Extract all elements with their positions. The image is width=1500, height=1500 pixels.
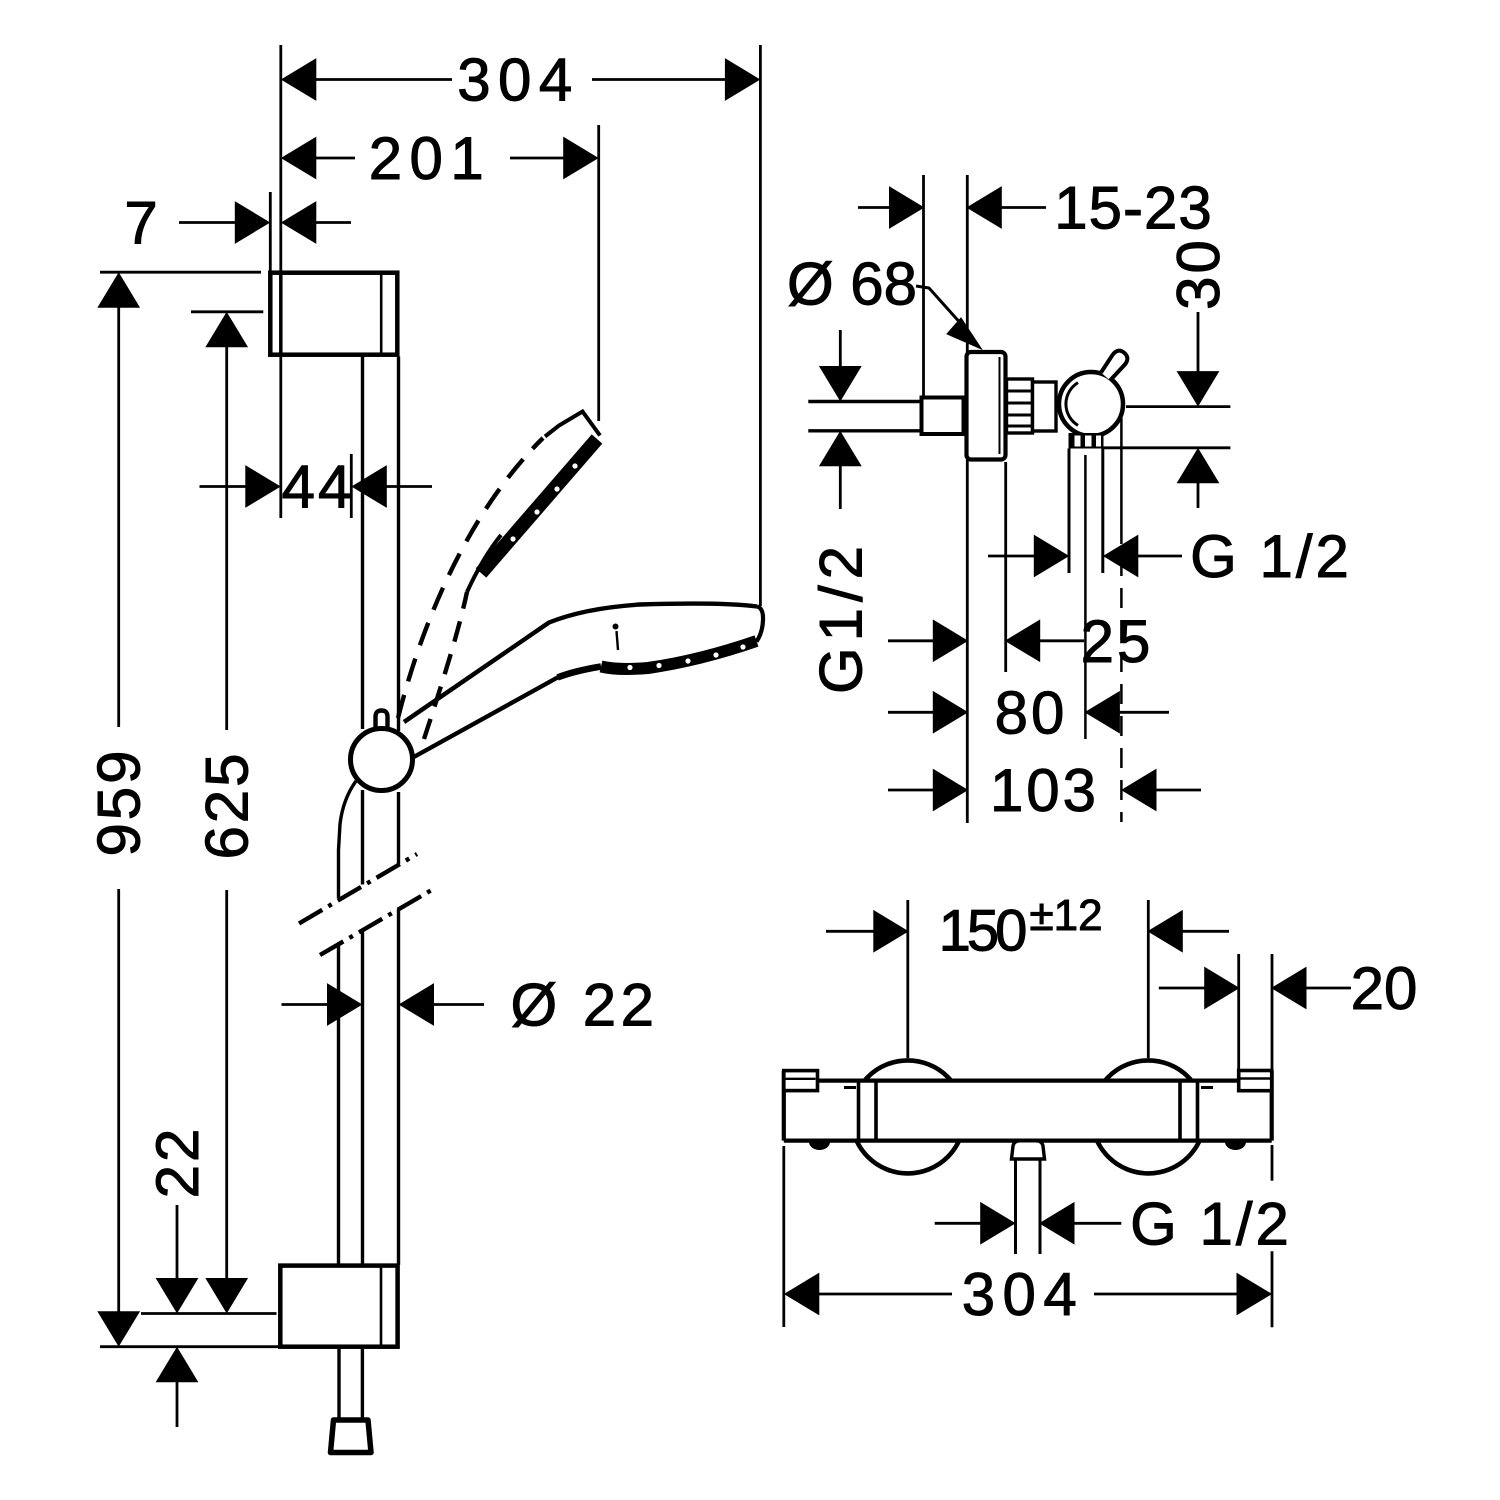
left valve joint lines [857, 1081, 861, 1141]
svg-text:G 1/2: G 1/2 [1130, 1190, 1292, 1257]
svg-text:150: 150 [939, 899, 1026, 964]
hose end cone (conical nut) [331, 1420, 372, 1453]
dimension G1/2 (front view outlet) [935, 1222, 982, 1225]
svg-text:625: 625 [194, 750, 261, 859]
dimension 304 (top) [282, 59, 316, 100]
wire: outlet axis center line (x=1085.4) [1084, 455, 1087, 739]
dimension 625 (vertical) [191, 310, 263, 313]
wire: bracket front face extension line (x=270.3) [269, 192, 272, 271]
thermostat body bar [784, 1081, 1272, 1141]
wire: 20-dim extension lines [1237, 954, 1240, 1069]
wire: wall plane extension line below bracket (x=280.8) [279, 357, 282, 519]
wire: 304-dim extension lines (front view) [782, 1146, 785, 1327]
union nut [922, 398, 964, 435]
dimension G1/2 supply pipe (vertical arrows at x=840.3) [839, 330, 842, 367]
slider holder (circle) [351, 729, 413, 791]
dimension 150 +-12 [826, 930, 875, 933]
hand shower spray face (horizontal, black band with nozzles) [601, 641, 757, 669]
dashed hand shower handle outline (raised position, right curve) [424, 592, 467, 739]
shower outlet below valve (ribbed G1/2) [1069, 433, 1104, 449]
dimension 80 [888, 711, 934, 714]
threaded connector (ribbed) [1007, 379, 1033, 433]
valve lever (small handle at top right) [1101, 351, 1127, 381]
svg-text:103: 103 [990, 757, 1099, 824]
dimension 25 [888, 639, 934, 642]
wire: extension line 15-23 left (x=923.5) [922, 175, 925, 396]
hand shower handle/head junction lower edge [558, 667, 602, 678]
dimension 15-23 [858, 206, 891, 209]
rail break symbol (white band + two dash-dot diagonals) [297, 853, 437, 957]
wall bracket (top) [270, 273, 397, 355]
hand shower spray face (raised position, black band) [481, 439, 597, 573]
wire: extension line 304 (x=760.4) [759, 45, 762, 606]
valve body neck [1033, 382, 1057, 431]
svg-text:G 1/2: G 1/2 [1190, 523, 1352, 590]
wire: outlet thread lines (front view) [1014, 1159, 1017, 1254]
svg-text:15-23: 15-23 [1054, 175, 1212, 242]
dimension 959 (left vertical) [100, 271, 261, 274]
wall escutcheon (diameter 68 plate) [967, 352, 1006, 460]
svg-text:G1/2: G1/2 [807, 540, 874, 694]
hose below bottom bracket [337, 1347, 340, 1419]
wire: 30-dim reference lines (horizontal) [1126, 405, 1230, 408]
svg-text:304: 304 [962, 1261, 1085, 1328]
dimension 20 [1159, 987, 1206, 990]
left end cap [784, 1071, 818, 1091]
wire: escutcheon depth extension (x=1005.7) [1004, 462, 1007, 672]
right union nut (circle) [1092, 1060, 1205, 1173]
slide rail (vertical bar) [361, 357, 364, 730]
bottom outlet nipple [1012, 1141, 1045, 1159]
wire: wall plane line (x=967.3) [966, 175, 969, 823]
wire: wall plane extension line (top, x=280.8) [279, 45, 282, 271]
svg-text:Ø 22: Ø 22 [510, 972, 658, 1039]
svg-text:20: 20 [1351, 955, 1418, 1022]
wire: outlet thread extension lines [1068, 449, 1071, 574]
dimension 44 [200, 485, 248, 488]
svg-text:7: 7 [124, 190, 157, 257]
svg-text:201: 201 [369, 125, 492, 192]
water inlet mark on head (dot + short line) [613, 624, 619, 630]
right mounting screw below body [1225, 1142, 1246, 1150]
wire: extension line 44 (x=351.3) [350, 454, 353, 518]
hand shower handle bottom edge [412, 678, 558, 759]
wire: extension line 201 (x=598.7) [597, 125, 600, 421]
svg-text:Ø 68: Ø 68 [787, 251, 917, 318]
hand shower (horizontal position): handle top edge and head top edge [404, 604, 757, 722]
dimension 304 (front view) [785, 1274, 819, 1315]
supply pipe from wall [808, 400, 921, 403]
shower hose (curving from slider, down left side of rail) [339, 781, 357, 898]
valve handle inner arc [1066, 383, 1078, 426]
right end cap [1239, 1071, 1272, 1091]
svg-text:304: 304 [457, 47, 580, 114]
dimension 103 [888, 789, 934, 792]
right valve joint lines [1178, 1081, 1182, 1141]
svg-text:±12: ±12 [1029, 891, 1102, 940]
svg-text:30: 30 [1165, 237, 1232, 310]
left mounting screw below body [809, 1142, 830, 1150]
dimension 201 [282, 138, 316, 179]
hand shower head right end edge [757, 607, 764, 642]
svg-text:80: 80 [995, 679, 1068, 746]
svg-text:959: 959 [86, 747, 153, 856]
dashed hand shower handle outline (raised position, left curve) [398, 438, 543, 718]
svg-text:22: 22 [144, 1126, 211, 1199]
wire: 150-dim extension lines [906, 900, 909, 1058]
wire: valve front dashed extension (x=1121.4) [1120, 418, 1123, 524]
svg-text:44: 44 [282, 454, 355, 521]
valve handle (circle) [1059, 372, 1123, 436]
svg-text:25: 25 [1081, 608, 1154, 675]
detail ticks on body [844, 1086, 856, 1089]
hand shower neck outline (raised position, solid) [467, 535, 501, 592]
dimension G1/2 outlet (side view) [988, 555, 1035, 558]
hand shower head end edges (raised position) [545, 412, 600, 437]
left union nut (circle) [851, 1060, 964, 1173]
bottom wall bracket [280, 1266, 397, 1347]
dimension diameter 22 (rail) [282, 1003, 330, 1006]
slider holder knob (small stem on top of holder) [376, 711, 388, 731]
